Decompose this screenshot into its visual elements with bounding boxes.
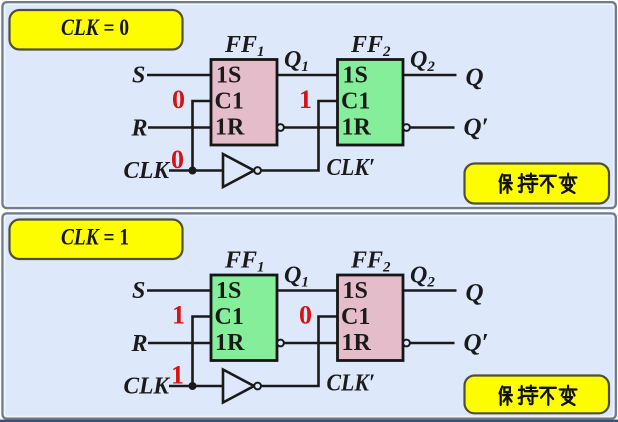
- wire: FF1 Q1 output to FF2 1S pin: [277, 74, 338, 77]
- svg-text:1: 1: [299, 85, 312, 114]
- panel 2 inner bevel highlight: [5, 215, 614, 416]
- flip-flop FF1 body: [211, 60, 277, 146]
- junction dot on CLK node: [189, 382, 197, 390]
- wire: FF1 inverted output to FF2 1R pin: [283, 342, 338, 345]
- inverter gate G1 bubble: [254, 167, 261, 174]
- FF1 inverted output bubble: [277, 340, 284, 347]
- svg-text:1R: 1R: [215, 115, 245, 141]
- hanzi character 保: [500, 387, 512, 405]
- result box (hold state): [465, 376, 610, 414]
- wire: S input to FF1 1S pin: [147, 289, 211, 292]
- hanzi character 持: [519, 174, 538, 192]
- svg-text:0: 0: [171, 145, 184, 174]
- svg-text:CLK: CLK: [124, 374, 171, 400]
- svg-text:CLK = 1: CLK = 1: [61, 224, 129, 249]
- svg-text:CLK = 0: CLK = 0: [61, 15, 129, 40]
- wire: inverter output CLK' up to FF2 C1 pin: [261, 317, 338, 387]
- svg-text:1S: 1S: [343, 278, 368, 304]
- svg-text:CLK′: CLK′: [327, 370, 376, 396]
- panel 1 inner bevel highlight: [5, 4, 614, 206]
- wire: FF2 Q2 output to Q: [403, 74, 457, 77]
- inverter gate G1 triangle: [223, 154, 254, 187]
- svg-text:1S: 1S: [216, 63, 241, 89]
- hanzi character 变: [560, 174, 577, 193]
- condition label box CLK = 1: [10, 220, 183, 260]
- wire: inverter output CLK' up to FF2 C1 pin: [261, 101, 338, 171]
- wire: FF1 inverted output to FF2 1R pin: [283, 126, 338, 129]
- svg-text:1R: 1R: [342, 330, 372, 356]
- panel 1 background frame: [3, 2, 616, 208]
- result box (hold state): [465, 164, 610, 204]
- hanzi character 不: [540, 388, 556, 405]
- svg-text:CLK′: CLK′: [327, 155, 376, 181]
- svg-text:S: S: [132, 62, 145, 88]
- svg-text:0: 0: [172, 85, 185, 114]
- wire: CLK branch up to FF1 C1 pin: [193, 317, 212, 387]
- svg-text:Q: Q: [466, 64, 484, 91]
- svg-text:R: R: [131, 331, 148, 357]
- wire: FF2 Q2 output to Q: [403, 289, 457, 292]
- svg-text:C1: C1: [341, 88, 370, 114]
- wire: R input to FF1 1R pin: [148, 342, 211, 345]
- svg-text:C1: C1: [341, 304, 370, 330]
- svg-text:1S: 1S: [343, 63, 368, 89]
- wire: FF2 inverted output to Q': [409, 126, 455, 129]
- svg-text:C1: C1: [215, 304, 244, 330]
- inverter gate G2 bubble: [254, 383, 261, 390]
- condition label box CLK = 0: [10, 10, 183, 50]
- svg-text:Q′: Q′: [464, 330, 489, 357]
- bottom shadow strip: [0, 420, 618, 422]
- svg-text:S: S: [132, 278, 145, 304]
- hanzi character 变: [560, 386, 577, 405]
- svg-text:CLK: CLK: [124, 158, 171, 184]
- svg-text:0: 0: [299, 300, 312, 329]
- wire: CLK input to inverter G1: [169, 169, 223, 172]
- svg-text:R: R: [131, 116, 148, 142]
- flip-flop FF2 body: [338, 275, 404, 361]
- inverter gate G2 triangle: [223, 370, 254, 403]
- svg-text:Q: Q: [466, 280, 484, 307]
- wire: CLK branch up to FF1 C1 pin: [193, 101, 212, 171]
- svg-text:1R: 1R: [215, 330, 245, 356]
- wire: CLK input to inverter G2: [169, 385, 223, 388]
- junction dot on CLK node: [189, 167, 197, 175]
- svg-text:1: 1: [171, 361, 184, 390]
- panel 2 background frame: [3, 213, 616, 418]
- svg-text:Q′: Q′: [464, 114, 489, 141]
- FF2 inverted output bubble: [403, 124, 410, 131]
- hanzi character 持: [519, 386, 538, 404]
- svg-text:1S: 1S: [216, 278, 241, 304]
- hanzi character 保: [500, 175, 512, 193]
- wire: S input to FF1 1S pin: [147, 74, 211, 77]
- wire: FF1 Q1 output to FF2 1S pin: [277, 289, 338, 292]
- wire: FF2 inverted output to Q': [409, 342, 455, 345]
- flip-flop FF1 body: [211, 275, 277, 361]
- svg-text:1: 1: [172, 300, 185, 329]
- FF2 inverted output bubble: [403, 340, 410, 347]
- FF1 inverted output bubble: [277, 124, 284, 131]
- svg-text:C1: C1: [215, 88, 244, 114]
- wire: R input to FF1 1R pin: [148, 126, 211, 129]
- svg-text:1R: 1R: [342, 115, 372, 141]
- hanzi character 不: [540, 176, 556, 193]
- flip-flop FF2 body: [338, 60, 404, 146]
